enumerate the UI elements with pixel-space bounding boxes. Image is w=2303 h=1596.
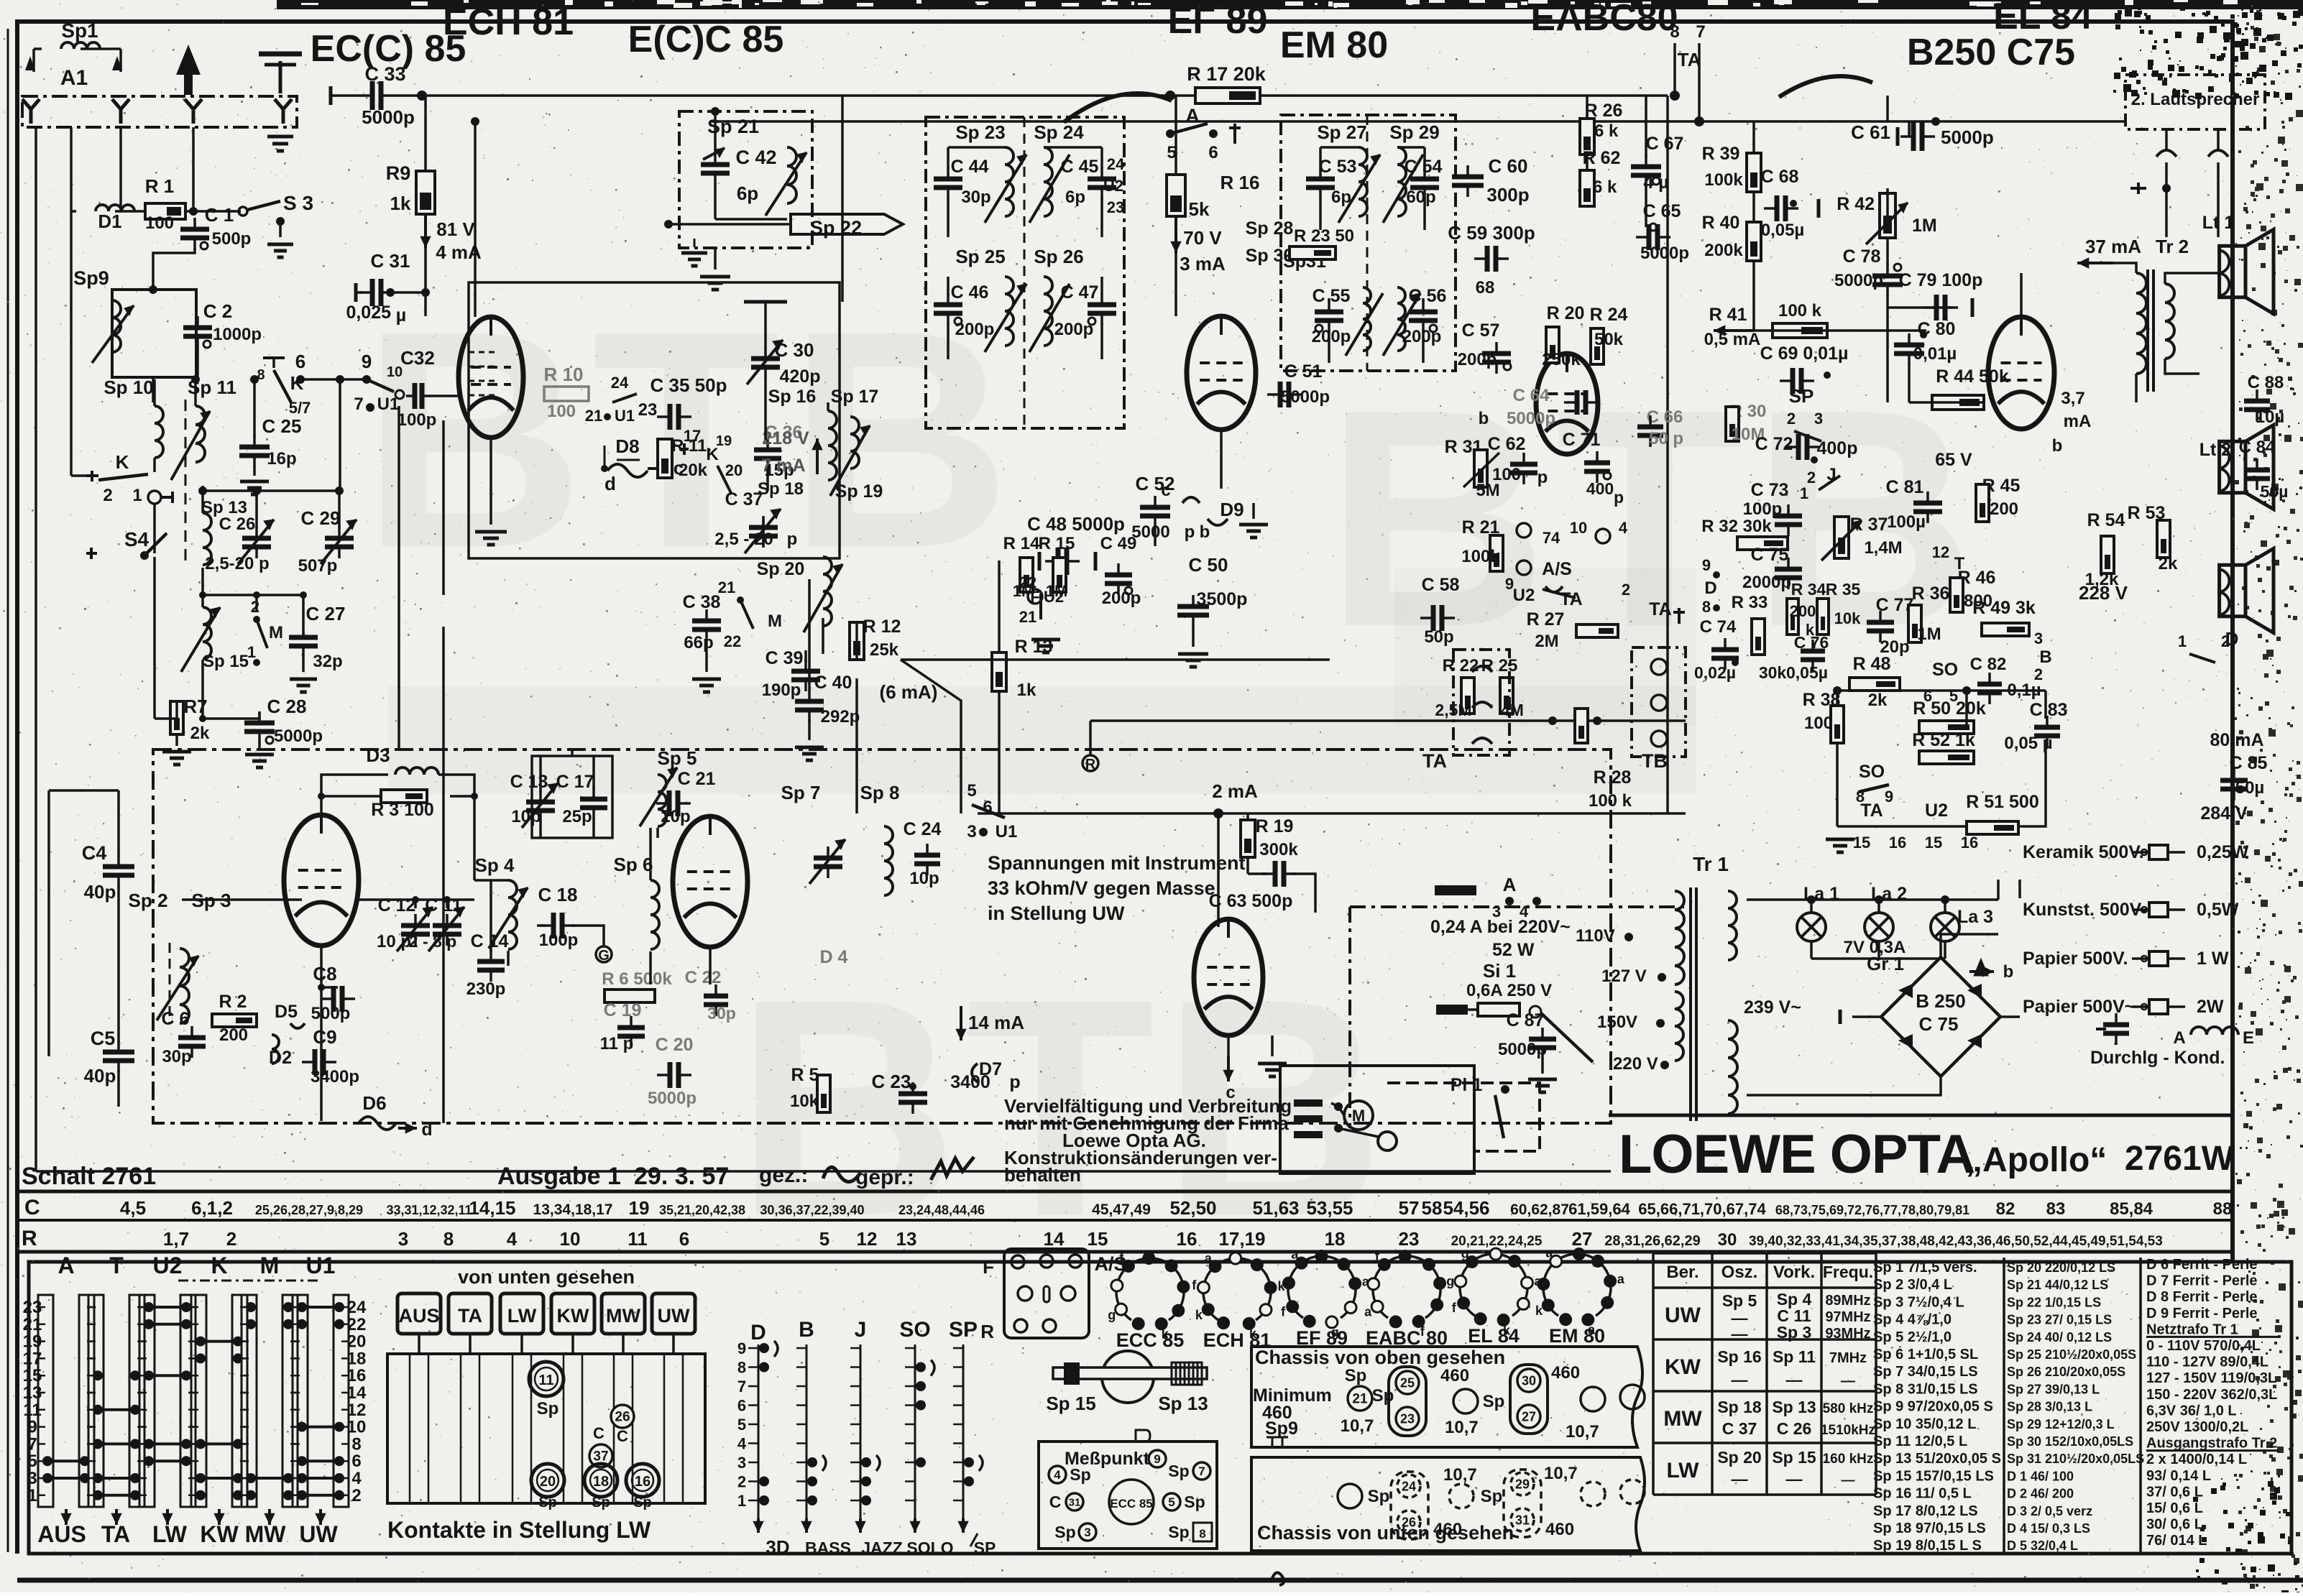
- svg-text:50µ: 50µ: [2261, 482, 2289, 501]
- svg-text:3500p: 3500p: [1197, 589, 1248, 609]
- svg-text:b: b: [2003, 962, 2014, 982]
- svg-text:b: b: [1479, 409, 1489, 428]
- svg-text:R 36: R 36: [1912, 583, 1950, 604]
- svg-text:10,7: 10,7: [1544, 1464, 1578, 1483]
- svg-text:C 66: C 66: [1647, 407, 1683, 427]
- svg-text:5000p: 5000p: [1640, 244, 1689, 263]
- svg-text:C 75: C 75: [1751, 545, 1789, 565]
- svg-text:Sp 27 39/0,13 L: Sp 27 39/0,13 L: [2007, 1382, 2100, 1396]
- svg-text:k: k: [1195, 1308, 1203, 1322]
- svg-text:Si 1: Si 1: [1483, 960, 1516, 982]
- svg-text:Kunstst. 500V-: Kunstst. 500V-: [2023, 900, 2146, 920]
- svg-text:32p: 32p: [313, 652, 342, 671]
- svg-text:K: K: [211, 1253, 227, 1278]
- svg-text:23: 23: [1400, 1411, 1415, 1426]
- svg-text:C 21: C 21: [678, 769, 716, 789]
- svg-text:30p: 30p: [162, 1047, 191, 1066]
- svg-text:U1: U1: [996, 822, 1018, 841]
- svg-text:C 42: C 42: [735, 147, 776, 168]
- svg-text:Kontakte in Stellung LW: Kontakte in Stellung LW: [387, 1517, 651, 1543]
- svg-text:C 84: C 84: [2239, 438, 2276, 457]
- svg-text:400: 400: [1586, 479, 1614, 498]
- svg-text:p: p: [1537, 468, 1548, 487]
- svg-text:C 69 0,01µ: C 69 0,01µ: [1760, 343, 1849, 364]
- svg-text:C 14: C 14: [471, 931, 509, 951]
- svg-text:10: 10: [560, 1228, 581, 1250]
- svg-text:Sp: Sp: [1184, 1493, 1205, 1511]
- svg-text:LW: LW: [1667, 1459, 1700, 1482]
- svg-text:16p: 16p: [267, 449, 296, 469]
- svg-text:Vork.: Vork.: [1773, 1263, 1815, 1282]
- svg-text:ECC 85: ECC 85: [1116, 1329, 1185, 1351]
- svg-text:2M: 2M: [1535, 632, 1558, 651]
- svg-text:127 V: 127 V: [1601, 967, 1647, 986]
- svg-text:g: g: [1461, 1246, 1469, 1260]
- svg-text:37/ 0,6 L: 37/ 0,6 L: [2146, 1484, 2203, 1500]
- svg-text:6: 6: [737, 1397, 746, 1415]
- svg-text:C 88: C 88: [2248, 373, 2284, 392]
- svg-text:TB: TB: [1642, 750, 1668, 772]
- svg-text:10,7: 10,7: [1341, 1416, 1374, 1436]
- svg-text:160 kHz: 160 kHz: [1823, 1452, 1874, 1467]
- svg-text:190p: 190p: [762, 681, 801, 700]
- svg-text:25k: 25k: [870, 640, 899, 660]
- svg-text:5000p: 5000p: [648, 1089, 697, 1108]
- svg-text:D 8 Ferrit - Perle: D 8 Ferrit - Perle: [2146, 1289, 2258, 1305]
- svg-text:—: —: [1732, 1370, 1748, 1389]
- svg-text:k: k: [1535, 1304, 1543, 1318]
- svg-text:mA: mA: [2064, 412, 2092, 431]
- svg-text:C 31: C 31: [371, 250, 410, 272]
- svg-text:p: p: [787, 530, 798, 549]
- svg-text:2k: 2k: [1868, 691, 1888, 710]
- svg-text:Sp 26 210/20x0,05S: Sp 26 210/20x0,05S: [2007, 1365, 2125, 1379]
- svg-text:U2: U2: [1925, 801, 1948, 821]
- svg-text:Sp 20 220/0,12 LS: Sp 20 220/0,12 LS: [2007, 1260, 2115, 1275]
- svg-text:5000p: 5000p: [1507, 409, 1555, 428]
- svg-text:Sp1: Sp1: [61, 19, 98, 42]
- svg-text:p: p: [1614, 488, 1624, 507]
- svg-text:0,01µ: 0,01µ: [1913, 344, 1957, 364]
- svg-text:R 2: R 2: [219, 992, 247, 1012]
- svg-text:C 56: C 56: [1409, 286, 1447, 306]
- svg-text:0,5 mA: 0,5 mA: [1704, 330, 1761, 349]
- svg-text:M: M: [269, 623, 283, 642]
- svg-text:Sp 22 1/0,15 LS: Sp 22 1/0,15 LS: [2007, 1295, 2101, 1309]
- svg-text:Sp: Sp: [592, 1495, 610, 1510]
- svg-text:2k: 2k: [2159, 554, 2178, 573]
- svg-text:7: 7: [1198, 1464, 1205, 1478]
- svg-text:1M: 1M: [1917, 624, 1941, 644]
- svg-text:460: 460: [1440, 1366, 1469, 1385]
- svg-text:15: 15: [1853, 834, 1870, 852]
- svg-text:Sp 18 97/0,15 LS: Sp 18 97/0,15 LS: [1873, 1521, 1986, 1536]
- svg-text:C 46: C 46: [951, 282, 989, 303]
- svg-text:C 37: C 37: [1722, 1419, 1757, 1438]
- svg-text:21: 21: [718, 578, 735, 596]
- svg-text:1: 1: [2178, 632, 2187, 650]
- svg-text:12: 12: [857, 1228, 878, 1250]
- svg-text:11 p: 11 p: [600, 1034, 634, 1053]
- svg-text:R 23 50: R 23 50: [1294, 226, 1354, 246]
- svg-text:µ: µ: [396, 305, 406, 326]
- svg-text:16: 16: [635, 1474, 651, 1490]
- svg-text:Ausgabe 1: Ausgabe 1: [497, 1163, 621, 1190]
- svg-text:Sp 19: Sp 19: [835, 481, 883, 502]
- svg-text:200p: 200p: [955, 320, 995, 339]
- svg-text:27: 27: [1572, 1228, 1593, 1250]
- svg-text:Sp: Sp: [1070, 1465, 1090, 1484]
- svg-text:R 12: R 12: [863, 617, 901, 637]
- svg-text:C 71: C 71: [1563, 430, 1601, 450]
- svg-text:2: 2: [2221, 632, 2230, 650]
- svg-text:100 k: 100 k: [1778, 301, 1822, 320]
- svg-text:13,34,18,17: 13,34,18,17: [533, 1201, 613, 1218]
- svg-text:420p: 420p: [780, 366, 821, 387]
- svg-text:R 41: R 41: [1709, 305, 1747, 325]
- svg-text:52 W: 52 W: [1492, 940, 1535, 960]
- svg-text:B 250: B 250: [1916, 990, 1965, 1012]
- svg-text:C 53: C 53: [1319, 157, 1357, 177]
- svg-text:Sp: Sp: [1368, 1487, 1390, 1506]
- svg-text:C 72: C 72: [1755, 434, 1793, 454]
- svg-text:2k: 2k: [190, 724, 210, 743]
- svg-text:9: 9: [362, 351, 372, 372]
- svg-text:M: M: [260, 1253, 280, 1278]
- svg-text:Sp 21 44/0,12 LS: Sp 21 44/0,12 LS: [2007, 1278, 2108, 1292]
- svg-text:D9: D9: [1220, 499, 1244, 520]
- svg-text:C: C: [617, 1427, 628, 1445]
- svg-text:10,7: 10,7: [1443, 1465, 1477, 1485]
- svg-text:Sp 25: Sp 25: [955, 246, 1005, 267]
- svg-text:TA: TA: [1560, 589, 1582, 609]
- svg-text:R9: R9: [386, 162, 411, 184]
- svg-text:Sp 13 51/20x0,05 S: Sp 13 51/20x0,05 S: [1873, 1451, 2001, 1467]
- svg-text:250k: 250k: [1542, 350, 1581, 369]
- svg-text:A: A: [58, 1253, 74, 1278]
- svg-text:200p: 200p: [1102, 589, 1141, 608]
- svg-text:—: —: [1786, 1370, 1803, 1389]
- svg-text:8: 8: [1702, 598, 1711, 616]
- svg-text:MW: MW: [1663, 1407, 1702, 1431]
- svg-text:7: 7: [354, 395, 363, 414]
- svg-text:21: 21: [1019, 608, 1036, 626]
- svg-text:11: 11: [538, 1373, 553, 1388]
- svg-text:292p: 292p: [821, 707, 860, 726]
- svg-text:4: 4: [507, 1228, 518, 1250]
- svg-text:10k: 10k: [790, 1092, 819, 1111]
- svg-text:C 78: C 78: [1843, 246, 1881, 267]
- svg-text:TA: TA: [101, 1521, 130, 1547]
- svg-text:TA: TA: [1860, 801, 1883, 821]
- svg-text:Sp 23: Sp 23: [955, 121, 1005, 143]
- svg-text:27: 27: [1522, 1409, 1536, 1424]
- svg-text:100p: 100p: [397, 410, 437, 430]
- svg-text:C 37: C 37: [725, 489, 763, 509]
- svg-text:Sp 11: Sp 11: [1773, 1347, 1816, 1366]
- svg-text:C 75: C 75: [1919, 1013, 1959, 1035]
- svg-text:Sp 18: Sp 18: [758, 479, 804, 499]
- svg-text:Sp 27: Sp 27: [1317, 121, 1366, 143]
- svg-text:20k: 20k: [679, 461, 708, 480]
- svg-text:37 mA: 37 mA: [2085, 236, 2141, 257]
- svg-text:R 17 20k: R 17 20k: [1187, 63, 1267, 85]
- svg-text:Sp 24 40/ 0,12 LS: Sp 24 40/ 0,12 LS: [2007, 1330, 2112, 1344]
- svg-text:behalten: behalten: [1004, 1164, 1081, 1186]
- svg-text:Sp 31 210½/20x0,05LS: Sp 31 210½/20x0,05LS: [2007, 1452, 2144, 1466]
- svg-text:18: 18: [593, 1474, 609, 1490]
- svg-text:5M: 5M: [1476, 481, 1499, 500]
- svg-text:7MHz: 7MHz: [1829, 1350, 1867, 1366]
- svg-text:p: p: [1009, 1072, 1020, 1092]
- svg-text:—: —: [1841, 1373, 1855, 1389]
- svg-text:C 26: C 26: [1777, 1419, 1812, 1438]
- svg-text:f: f: [1281, 1305, 1286, 1319]
- svg-text:R 35: R 35: [1826, 580, 1861, 599]
- svg-text:5000p: 5000p: [274, 726, 323, 746]
- svg-text:110 - 127V 89/0,4L: 110 - 127V 89/0,4L: [2146, 1355, 2268, 1370]
- svg-text:R 27: R 27: [1527, 609, 1565, 629]
- svg-text:50µ: 50µ: [2235, 778, 2265, 798]
- svg-text:9: 9: [1154, 1452, 1160, 1466]
- svg-text:Sp 20: Sp 20: [1717, 1448, 1761, 1467]
- svg-text:Sp 30 152/10x0,05LS: Sp 30 152/10x0,05LS: [2007, 1434, 2133, 1449]
- svg-text:Sp 16: Sp 16: [768, 387, 817, 407]
- svg-text:D5: D5: [275, 1002, 298, 1022]
- svg-text:C 24: C 24: [904, 819, 942, 839]
- svg-text:KW: KW: [1665, 1355, 1701, 1379]
- svg-text:6: 6: [983, 798, 992, 817]
- svg-text:Chassis von oben gesehen: Chassis von oben gesehen: [1255, 1347, 1505, 1368]
- svg-text:35,21,20,42,38: 35,21,20,42,38: [659, 1203, 745, 1217]
- svg-text:E(C)C 85: E(C)C 85: [628, 19, 784, 60]
- svg-text:53,55: 53,55: [1306, 1197, 1353, 1219]
- svg-text:33,31,12,32,11: 33,31,12,32,11: [386, 1203, 472, 1217]
- svg-text:2W: 2W: [2197, 997, 2224, 1017]
- svg-text:70 V: 70 V: [1183, 227, 1222, 249]
- svg-text:Papier 500V~: Papier 500V~: [2023, 997, 2135, 1017]
- svg-text:SO: SO: [899, 1318, 930, 1342]
- svg-text:2,5-20 p: 2,5-20 p: [205, 554, 269, 573]
- svg-text:U1: U1: [615, 407, 635, 425]
- svg-text:C 35 50p: C 35 50p: [651, 374, 727, 396]
- svg-text:Ber.: Ber.: [1666, 1263, 1698, 1282]
- svg-text:R 54: R 54: [2087, 510, 2125, 530]
- svg-text:40p: 40p: [84, 881, 116, 903]
- svg-text:4,5: 4,5: [120, 1197, 146, 1219]
- svg-text:AUS: AUS: [398, 1305, 439, 1327]
- svg-text:460: 460: [1551, 1363, 1580, 1383]
- svg-text:Sp 7 34/0,15 LS: Sp 7 34/0,15 LS: [1873, 1364, 1978, 1380]
- svg-text:85,84: 85,84: [2110, 1199, 2153, 1219]
- svg-text:S 3: S 3: [283, 192, 313, 214]
- svg-text:5000: 5000: [1131, 522, 1169, 542]
- svg-text:f: f: [1375, 1250, 1380, 1264]
- svg-text:22: 22: [724, 632, 741, 650]
- svg-text:100k: 100k: [1461, 547, 1500, 566]
- svg-text:C 18: C 18: [538, 884, 578, 905]
- svg-text:Sp 19 8/0,15 L S: Sp 19 8/0,15 L S: [1873, 1538, 1982, 1554]
- svg-text:18: 18: [1325, 1228, 1346, 1250]
- svg-text:TA: TA: [1678, 49, 1701, 70]
- svg-text:0,5W: 0,5W: [2197, 900, 2239, 920]
- svg-text:9: 9: [1702, 556, 1711, 574]
- svg-text:D 1 46/ 100: D 1 46/ 100: [2007, 1469, 2074, 1483]
- svg-text:4: 4: [737, 1435, 747, 1453]
- svg-text:2: 2: [103, 486, 112, 505]
- svg-text:EM 80: EM 80: [1280, 24, 1388, 66]
- svg-text:C 44: C 44: [951, 157, 989, 177]
- svg-text:Netztrafo Tr 1: Netztrafo Tr 1: [2146, 1321, 2238, 1337]
- svg-text:0,25W: 0,25W: [2197, 842, 2249, 862]
- svg-text:23: 23: [1399, 1228, 1420, 1250]
- svg-text:Sp 15: Sp 15: [1046, 1393, 1095, 1414]
- svg-text:30: 30: [1522, 1373, 1536, 1388]
- svg-text:1k: 1k: [1017, 681, 1036, 700]
- svg-text:Spannungen mit Instrument: Spannungen mit Instrument: [988, 852, 1246, 874]
- svg-text:D: D: [750, 1321, 766, 1344]
- svg-text:Sp9: Sp9: [1265, 1419, 1298, 1439]
- svg-text:LW: LW: [152, 1521, 188, 1547]
- svg-text:5: 5: [737, 1416, 746, 1434]
- svg-text:0,24 A bei 220V~: 0,24 A bei 220V~: [1430, 917, 1571, 937]
- svg-text:Sp 13: Sp 13: [1772, 1398, 1816, 1416]
- svg-text:6,1,2: 6,1,2: [191, 1197, 233, 1219]
- svg-text:Sp 6 1+1/0,5 SL: Sp 6 1+1/0,5 SL: [1873, 1347, 1978, 1362]
- svg-text:C 25: C 25: [262, 415, 302, 437]
- svg-text:6: 6: [295, 351, 305, 372]
- svg-text:A: A: [1503, 874, 1517, 895]
- svg-text:TA: TA: [458, 1305, 482, 1327]
- svg-text:6: 6: [679, 1228, 689, 1250]
- svg-text:Sp 17 8/0,12 LS: Sp 17 8/0,12 LS: [1873, 1503, 1978, 1519]
- svg-text:30p: 30p: [707, 1004, 736, 1023]
- svg-text:10 p: 10 p: [377, 932, 411, 951]
- svg-text:16: 16: [1177, 1228, 1198, 1250]
- svg-text:C 29: C 29: [301, 507, 341, 529]
- svg-text:24: 24: [1107, 155, 1125, 173]
- svg-text:C 63 500p: C 63 500p: [1209, 891, 1293, 911]
- svg-text:Sp 22: Sp 22: [810, 217, 862, 239]
- svg-text:Sp: Sp: [1372, 1386, 1394, 1406]
- svg-text:Sp 17: Sp 17: [831, 387, 879, 407]
- svg-text:D 9 Ferrit - Perle: D 9 Ferrit - Perle: [2146, 1306, 2258, 1321]
- svg-text:C 65: C 65: [1643, 201, 1681, 221]
- svg-text:50k: 50k: [1594, 330, 1624, 349]
- svg-text:R 24: R 24: [1590, 305, 1628, 325]
- svg-text:200p: 200p: [1312, 327, 1351, 346]
- svg-text:5000p: 5000p: [1281, 387, 1330, 407]
- svg-text:C 19: C 19: [604, 1000, 642, 1020]
- svg-text:C 47: C 47: [1061, 282, 1099, 303]
- svg-text:R 14: R 14: [1003, 534, 1040, 553]
- svg-text:Sp 9 97/20x0,05 S: Sp 9 97/20x0,05 S: [1873, 1399, 1993, 1415]
- svg-text:31: 31: [1515, 1513, 1530, 1527]
- svg-text:Osz.: Osz.: [1721, 1263, 1758, 1282]
- svg-text:89MHz: 89MHz: [1825, 1293, 1870, 1309]
- svg-text:U1: U1: [377, 395, 400, 414]
- svg-text:13: 13: [896, 1228, 917, 1250]
- svg-text:2: 2: [1622, 581, 1630, 599]
- svg-text:16: 16: [1889, 834, 1906, 852]
- svg-text:gepr.:: gepr.:: [855, 1166, 914, 1189]
- svg-text:2,5 - 20: 2,5 - 20: [714, 530, 773, 549]
- svg-text:3,7: 3,7: [2061, 389, 2084, 408]
- svg-text:a: a: [1617, 1272, 1625, 1286]
- svg-text:6: 6: [1208, 143, 1218, 162]
- svg-text:Sp 11 12/0,5 L: Sp 11 12/0,5 L: [1873, 1434, 1967, 1449]
- svg-text:D7: D7: [979, 1059, 1002, 1079]
- svg-text:6p: 6p: [1065, 188, 1085, 207]
- svg-text:BASS: BASS: [805, 1539, 851, 1557]
- svg-text:83: 83: [2046, 1199, 2066, 1219]
- svg-text:EF 89: EF 89: [1168, 0, 1268, 42]
- svg-text:0 - 110V 570/0,4L: 0 - 110V 570/0,4L: [2146, 1338, 2261, 1354]
- svg-text:Sp 5: Sp 5: [1722, 1291, 1757, 1310]
- svg-text:17,19: 17,19: [1218, 1228, 1265, 1250]
- svg-text:Sp 15: Sp 15: [1772, 1448, 1816, 1467]
- svg-text:D 3 2/ 0,5 verz: D 3 2/ 0,5 verz: [2007, 1504, 2092, 1518]
- svg-text:15/ 0,6 L: 15/ 0,6 L: [2146, 1500, 2203, 1516]
- svg-text:C 48 5000p: C 48 5000p: [1027, 513, 1125, 535]
- svg-text:1: 1: [737, 1492, 746, 1510]
- svg-text:100: 100: [145, 213, 174, 233]
- svg-text:21: 21: [1352, 1392, 1368, 1407]
- svg-text:C 60: C 60: [1489, 155, 1528, 177]
- svg-text:—: —: [1732, 1470, 1748, 1488]
- svg-text:66p: 66p: [684, 633, 713, 652]
- svg-text:0,6A 250 V: 0,6A 250 V: [1466, 981, 1552, 1000]
- svg-text:93/ 0,14 L: 93/ 0,14 L: [2146, 1468, 2211, 1484]
- svg-text:R 34: R 34: [1791, 580, 1826, 599]
- svg-text:Durchlg - Kond.: Durchlg - Kond.: [2090, 1048, 2225, 1068]
- svg-text:5k: 5k: [1189, 198, 1210, 220]
- svg-text:d: d: [605, 473, 616, 494]
- svg-text:2 mA: 2 mA: [1212, 780, 1258, 802]
- svg-text:ECH 81: ECH 81: [443, 1, 574, 43]
- svg-text:„Apollo“: „Apollo“: [1965, 1141, 2107, 1179]
- svg-text:5: 5: [819, 1228, 829, 1250]
- svg-text:1: 1: [1800, 484, 1808, 502]
- svg-text:2 x 1400/0,14 L: 2 x 1400/0,14 L: [2146, 1452, 2247, 1467]
- svg-text:400p: 400p: [1817, 438, 1858, 458]
- svg-text:93MHz: 93MHz: [1825, 1326, 1870, 1342]
- svg-text:R 42: R 42: [1837, 194, 1875, 214]
- svg-text:20p: 20p: [661, 807, 690, 826]
- svg-text:C 81: C 81: [1886, 477, 1924, 497]
- svg-text:UW: UW: [1665, 1304, 1701, 1327]
- svg-text:R 33: R 33: [1732, 593, 1768, 612]
- svg-text:gez.:: gez.:: [759, 1163, 808, 1187]
- svg-text:R 5: R 5: [791, 1065, 819, 1085]
- svg-text:100: 100: [547, 402, 576, 421]
- svg-text:G: G: [598, 948, 610, 964]
- svg-text:C 20: C 20: [656, 1035, 694, 1055]
- svg-text:30k: 30k: [1759, 663, 1787, 682]
- svg-text:25,26,28,27,9,8,29: 25,26,28,27,9,8,29: [255, 1203, 363, 1217]
- svg-text:2000p: 2000p: [1742, 573, 1791, 592]
- svg-text:Sp 29: Sp 29: [1389, 121, 1439, 143]
- svg-text:C 64: C 64: [1513, 386, 1550, 405]
- svg-text:C 23: C 23: [872, 1071, 911, 1092]
- svg-text:Sp 8 31/0,15 LS: Sp 8 31/0,15 LS: [1873, 1381, 1978, 1397]
- svg-text:Sp: Sp: [633, 1495, 652, 1510]
- svg-text:580 kHz: 580 kHz: [1823, 1401, 1874, 1416]
- svg-text:a: a: [1364, 1305, 1372, 1319]
- svg-text:Sp: Sp: [1481, 1487, 1503, 1506]
- svg-text:Sp 26: Sp 26: [1034, 246, 1083, 267]
- svg-text:23: 23: [638, 400, 658, 420]
